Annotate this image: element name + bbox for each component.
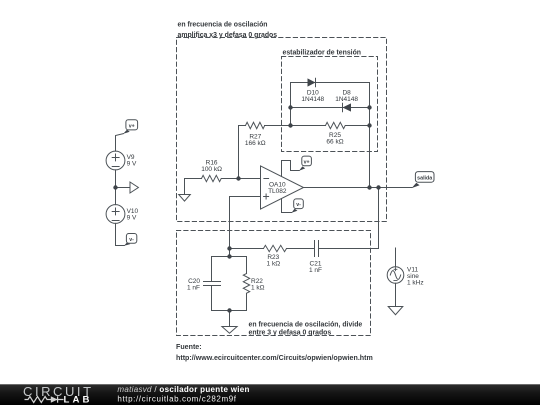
op-amp plus symbol bbox=[264, 194, 269, 199]
svg-text:66 kΩ: 66 kΩ bbox=[326, 138, 343, 145]
node divider top bbox=[227, 246, 231, 250]
svg-text:http://circuitlab.com/c282m9f: http://circuitlab.com/c282m9f bbox=[117, 394, 236, 403]
voltage source V9 bbox=[106, 151, 125, 170]
note amplifier bbox=[178, 22, 278, 39]
note divider bbox=[249, 322, 363, 337]
svg-text:1N4148: 1N4148 bbox=[301, 96, 324, 103]
node divider bottom bbox=[227, 308, 231, 312]
resistor R23 bbox=[264, 245, 287, 251]
svg-text:1N4148: 1N4148 bbox=[335, 96, 358, 103]
wire R27 to stabilizer left node bbox=[265, 125, 291, 127]
node output a bbox=[367, 185, 371, 189]
ground at divider bbox=[229, 311, 231, 327]
label V9 bbox=[127, 154, 137, 168]
svg-text:Fuente:: Fuente: bbox=[176, 343, 202, 351]
resistor R16 bbox=[185, 178, 202, 180]
note fuente bbox=[176, 343, 373, 362]
voltage source V10 bbox=[106, 205, 125, 224]
flag salida bbox=[412, 172, 434, 189]
flag v- opamp bbox=[292, 199, 304, 213]
resistor R25 bbox=[326, 122, 346, 128]
label D10 bbox=[301, 89, 324, 103]
svg-text:v-: v- bbox=[129, 237, 134, 243]
wire v+ flag to V9 bbox=[116, 134, 124, 152]
capacitor C20 branch bbox=[211, 257, 213, 282]
stabilizer right vertical wire bbox=[369, 83, 371, 188]
svg-text:v+: v+ bbox=[304, 159, 310, 165]
wire C21 to R23 bbox=[287, 248, 315, 250]
resistor R27 bbox=[246, 122, 265, 128]
label R23 bbox=[267, 254, 281, 268]
middle branch wire with D8 bbox=[291, 107, 370, 109]
note estabilizador bbox=[283, 50, 362, 57]
svg-text:v-: v- bbox=[296, 202, 301, 208]
node divider mid bbox=[227, 254, 231, 258]
label R22 bbox=[251, 278, 265, 292]
svg-text:en frecuencia de oscilación: en frecuencia de oscilación bbox=[178, 22, 268, 29]
svg-text:1 kΩ: 1 kΩ bbox=[267, 261, 281, 268]
label C21 bbox=[309, 261, 322, 275]
label D8 bbox=[335, 89, 358, 103]
ground at V11 bbox=[388, 307, 403, 315]
svg-text:matiasvd / oscilador puente wi: matiasvd / oscilador puente wien bbox=[117, 385, 249, 394]
flag v+ top-left bbox=[123, 120, 137, 134]
node output b bbox=[376, 185, 380, 189]
wire V9 to V10 bbox=[115, 170, 117, 205]
flag v- bottom-left bbox=[124, 234, 137, 246]
bottom branch wire with R25 bbox=[291, 125, 326, 127]
junction dots bbox=[113, 105, 380, 312]
node stab right mid bbox=[367, 105, 371, 109]
flag v+ opamp bbox=[299, 156, 311, 171]
wire plus input bbox=[230, 197, 261, 257]
label V11 bbox=[407, 266, 424, 286]
node stab right bottom bbox=[367, 123, 371, 127]
stabilizer left vertical wire bbox=[290, 83, 292, 126]
svg-text:en frecuencia de oscilación, d: en frecuencia de oscilación, divide bbox=[249, 322, 363, 329]
svg-text:1 kΩ: 1 kΩ bbox=[251, 285, 265, 292]
node stab left mid bbox=[288, 105, 292, 109]
logo resistor-diode glyph bbox=[25, 396, 64, 402]
wire R23 to node bbox=[230, 248, 264, 250]
svg-text:166 kΩ: 166 kΩ bbox=[245, 140, 266, 147]
svg-text:1 nF: 1 nF bbox=[309, 267, 322, 274]
label R16 bbox=[201, 159, 222, 173]
svg-text:amplifica x3 y defasa 0 grados: amplifica x3 y defasa 0 grados bbox=[178, 32, 278, 39]
svg-text:estabilizador de tensión: estabilizador de tensión bbox=[283, 50, 362, 57]
diode D8 bbox=[343, 103, 352, 111]
wire V10 to v- flag bbox=[116, 223, 125, 245]
node rail mid bbox=[113, 185, 117, 189]
divider dashed box bbox=[177, 231, 371, 336]
resistor R22 branch bbox=[246, 257, 248, 274]
op-amp v+ power pin wire bbox=[282, 161, 300, 177]
svg-text:9 V: 9 V bbox=[127, 161, 137, 168]
wire output down to RC branch bbox=[319, 188, 379, 249]
estabilizador dashed box bbox=[282, 57, 378, 152]
label V10 bbox=[127, 208, 139, 222]
svg-text:1 kHz: 1 kHz bbox=[407, 279, 424, 286]
svg-text:9 V: 9 V bbox=[127, 214, 137, 221]
svg-text:http://www.ecircuitcenter.com/: http://www.ecircuitcenter.com/Circuits/o… bbox=[176, 354, 373, 362]
top branch wire with D10 bbox=[291, 82, 370, 84]
label OA10 bbox=[268, 181, 287, 195]
svg-text:100 kΩ: 100 kΩ bbox=[201, 166, 222, 173]
svg-text:v+: v+ bbox=[129, 124, 135, 130]
wire feedback vertical R27 bbox=[239, 126, 246, 179]
node stab left bottom bbox=[288, 123, 292, 127]
label C20 bbox=[187, 278, 200, 292]
svg-text:1 nF: 1 nF bbox=[187, 285, 200, 292]
label R27 bbox=[245, 134, 266, 148]
svg-text:entre 3 y defasa 0 grados: entre 3 y defasa 0 grados bbox=[249, 330, 332, 337]
svg-text:salida: salida bbox=[417, 176, 432, 182]
svg-text:TL082: TL082 bbox=[268, 188, 287, 195]
ground right-pointing at mid rail bbox=[116, 187, 131, 189]
ground at R16 bbox=[184, 179, 186, 195]
op-amp minus symbol bbox=[264, 178, 269, 180]
capacitor C21 bbox=[318, 241, 320, 257]
voltage source V11 bbox=[395, 248, 397, 267]
node minus input bbox=[236, 176, 240, 180]
op-amp output wire bbox=[304, 187, 413, 189]
amplifier dashed box bbox=[177, 38, 387, 222]
svg-text:LAB: LAB bbox=[64, 394, 93, 405]
wire R16 to op-amp minus input bbox=[222, 178, 261, 180]
op-amp OA10 triangle bbox=[261, 166, 304, 209]
op-amp v- power pin wire bbox=[282, 199, 292, 213]
diode D10 bbox=[308, 78, 316, 86]
parallel RC top wire bbox=[212, 256, 247, 258]
label R25 bbox=[326, 132, 343, 146]
parallel RC bottom wire bbox=[212, 310, 247, 312]
